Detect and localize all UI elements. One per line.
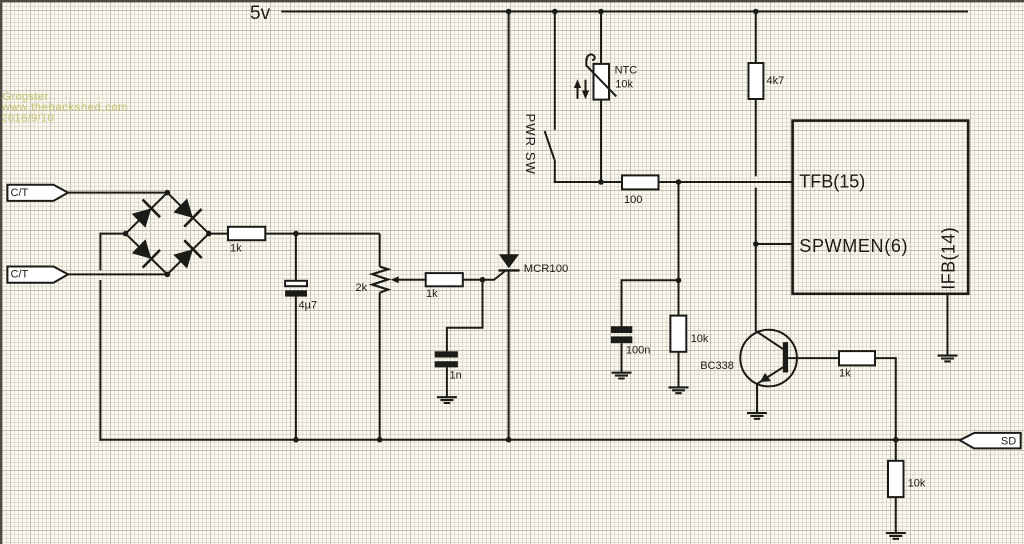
wire 1k to gate junction xyxy=(463,279,494,281)
node junction 4u7/bottom rail xyxy=(293,437,299,443)
wire emitter to ground xyxy=(756,383,758,413)
wire 100n to ground xyxy=(621,343,623,373)
connector SD xyxy=(960,433,1021,449)
node junction 5v/4k7 xyxy=(753,9,759,15)
wire switch to 100 resistor xyxy=(554,181,556,182)
wire left drop vertical (with hop gap) xyxy=(99,233,101,271)
wire bottom rail xyxy=(99,439,960,441)
svg-text:C/T: C/T xyxy=(11,269,29,281)
node junction gate/1n xyxy=(480,277,486,283)
wire 5v to switch xyxy=(554,12,556,130)
wire TFB junction down xyxy=(678,182,680,316)
wire 5v to NTC xyxy=(600,12,602,64)
transistor Q1 BC338 xyxy=(740,330,797,387)
wire switch bottom terminal xyxy=(554,160,556,182)
node junction 5v/PWR SW xyxy=(552,9,558,15)
resistor 4k7 xyxy=(749,63,764,99)
wire SD drop vertical xyxy=(895,357,897,440)
thyristor gate lead xyxy=(494,270,506,280)
connector C/T (top) xyxy=(7,185,68,201)
svg-text:TFB(15): TFB(15) xyxy=(799,172,865,192)
node junction TFB/10k branch xyxy=(676,179,682,185)
wire 10k to ground xyxy=(678,352,680,388)
wire MCR100 cathode to bottom rail xyxy=(508,270,510,439)
bridge rectifier frame wires xyxy=(126,193,209,275)
potentiometer wiper arrow xyxy=(391,276,399,283)
thyristor MCR100 xyxy=(499,254,519,268)
svg-text:MCR100: MCR100 xyxy=(524,263,569,275)
wire 100 to IC TFB pin xyxy=(659,181,793,183)
connector C/T (bottom) xyxy=(7,267,68,283)
thermistor up arrow xyxy=(577,85,579,99)
ground (pulldown) xyxy=(886,533,906,539)
node junction 100n/10k xyxy=(676,278,682,284)
wire 1n branch: down, left, down xyxy=(447,280,483,352)
resistor 1k (base) xyxy=(839,351,875,365)
svg-text:C/T: C/T xyxy=(11,187,29,199)
wire 5v to MCR100 anode xyxy=(508,12,510,255)
svg-text:4k7: 4k7 xyxy=(767,75,785,87)
svg-text:5v: 5v xyxy=(250,3,271,24)
ground (1n) xyxy=(437,397,457,403)
node junction NTC/wire xyxy=(598,179,604,185)
capacitor 4u7 (electrolytic) xyxy=(285,281,307,286)
wire 1k to pot top xyxy=(265,233,379,235)
svg-text:4µ7: 4µ7 xyxy=(299,300,318,312)
node bridge right vertex xyxy=(206,231,212,237)
svg-text:NTC: NTC xyxy=(615,65,638,77)
resistor 1k (bridge output) xyxy=(228,227,265,240)
node bridge left vertex xyxy=(123,231,129,237)
ground (10k) xyxy=(669,387,689,393)
svg-text:1n: 1n xyxy=(450,370,462,382)
thermistor down arrow xyxy=(585,80,587,94)
wire IFB pin to ground xyxy=(947,294,949,356)
resistor 1k (gate) xyxy=(426,273,463,286)
wire 10k to ground xyxy=(895,497,897,533)
ground (IFB) xyxy=(938,356,958,362)
svg-text:2016/9/10: 2016/9/10 xyxy=(2,112,55,124)
wire junction to 100n xyxy=(622,280,679,326)
resistor 10k (divider) xyxy=(670,316,686,352)
node junction pot/bottom rail xyxy=(377,437,383,443)
resistor 100 xyxy=(622,175,659,189)
svg-text:1k: 1k xyxy=(230,243,242,255)
svg-text:1k: 1k xyxy=(839,368,851,380)
wire bridge right vertex to resistor 1k xyxy=(209,233,228,235)
svg-text:100: 100 xyxy=(624,194,642,206)
svg-text:PWR SW: PWR SW xyxy=(523,114,538,175)
svg-text:10k: 10k xyxy=(691,333,709,345)
wire wiper to resistor 1k xyxy=(398,279,426,281)
node junction SPWMEN/4k7 xyxy=(753,241,759,247)
potentiometer 2k body (zigzag) xyxy=(372,267,388,293)
ground (emitter) xyxy=(747,413,767,419)
wire C/T bottom to bridge xyxy=(68,273,167,275)
wire SPWMEN junction to collector xyxy=(755,244,757,331)
node bridge bottom vertex xyxy=(165,272,171,278)
switch PWR SW blade xyxy=(545,131,555,160)
resistor 10k (pulldown) xyxy=(895,440,897,461)
sheet border left edge xyxy=(0,0,2,544)
wire base to 1k xyxy=(788,357,839,359)
svg-text:2k: 2k xyxy=(356,282,368,294)
wire down to capacitor 4u7 xyxy=(295,234,297,281)
wire 4u7 to bottom rail xyxy=(295,297,297,440)
wire 5v power rail xyxy=(281,11,968,13)
bridge diode D2 (top to right) xyxy=(173,198,193,218)
sheet border top edge xyxy=(0,0,1024,2)
svg-text:10k: 10k xyxy=(615,79,633,91)
wire 1n to ground xyxy=(446,367,448,397)
wire C/T top to bridge xyxy=(68,192,167,194)
ground (100n) xyxy=(612,373,632,379)
IC box U1 xyxy=(793,121,969,294)
svg-text:SPWMEN(6): SPWMEN(6) xyxy=(799,236,908,256)
node junction 4u7 top xyxy=(293,231,299,237)
capacitor 1n xyxy=(435,351,458,357)
bridge diode D4 (bottom to right) xyxy=(173,249,193,268)
wire pot top lead xyxy=(379,234,381,267)
thermistor diagonal stroke with hook xyxy=(586,54,616,96)
wire 5v to 4k7 xyxy=(755,12,757,64)
bridge diode D1 (left to top) xyxy=(132,208,152,227)
node junction 5v/NTC xyxy=(598,9,604,15)
wire 1k to SD drop xyxy=(875,357,896,359)
wire bridge left vertex to left drop xyxy=(100,233,125,235)
svg-text:10k: 10k xyxy=(908,477,926,489)
svg-text:1k: 1k xyxy=(426,288,438,300)
node junction SD rail xyxy=(893,437,899,443)
wire NTC bottom to 182 wire xyxy=(600,100,602,182)
thermistor NTC body xyxy=(594,64,610,100)
bridge diode D3 (left to bottom) xyxy=(132,239,152,258)
wire pot bottom lead to rail xyxy=(379,293,381,440)
capacitor 100n xyxy=(611,326,632,333)
node junction 5v/MCR100 anode xyxy=(506,9,512,15)
wire SPWMEN pin xyxy=(756,243,793,245)
svg-text:IFB(14): IFB(14) xyxy=(939,227,959,290)
svg-text:BC338: BC338 xyxy=(700,360,734,372)
svg-text:100n: 100n xyxy=(626,345,650,357)
node junction MCR100/bottom rail xyxy=(506,437,512,443)
wire 4k7 down (hop gap at TFB wire) xyxy=(755,99,757,176)
node bridge top vertex xyxy=(165,190,171,196)
svg-text:SD: SD xyxy=(1001,435,1016,447)
